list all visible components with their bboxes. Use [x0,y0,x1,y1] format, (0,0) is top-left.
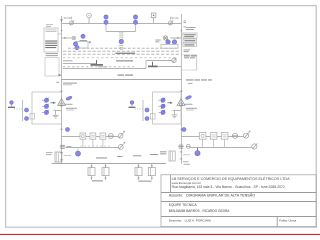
pole instruments blue right [145,108,149,121]
svg-text:Assunto: DIAGRAMA UNIFILAR D: Assunto: DIAGRAMA UNIFILAR DE ALTA TENSÃ… [169,193,255,198]
transformer text left [65,104,78,111]
aux meter right [186,145,190,149]
lamp blue below row2 right [195,148,200,156]
ground right [172,111,182,118]
flow arrow left [51,102,56,104]
svg-text:EQUIPE TECNICA: EQUIPE TECNICA [169,203,198,207]
instrument box marks right [201,134,227,137]
PT pair blue x106 [104,15,108,24]
svg-text:Folha: Única: Folha: Única [279,217,296,222]
CT symbol left bay [62,36,76,40]
PT pair blue x136 [133,15,137,24]
label drops 1-2 [92,180,103,181]
cubicle-to-riser arrow left [59,74,62,77]
pilot lamp blue right [182,128,186,132]
CT row2 left [60,145,65,148]
breaker left row1 [118,131,125,138]
instrument row line left [62,136,119,138]
wire: left bay vertical riser [61,16,63,164]
dimension arrow left bay [64,17,72,20]
meter instrument left [87,13,92,23]
cubicle dashed drop [120,32,123,50]
pilot lamp blue left [66,128,70,132]
dimension arrow right bay [171,17,179,20]
meter circle right [232,133,238,138]
wire: mini bus under PT pairs [106,31,136,33]
box stubs left [83,139,103,147]
note text rows [63,48,180,66]
lamp blue in cubicle drop [119,39,123,43]
row2 line right [190,147,251,149]
fuse switch on bus left [70,20,75,25]
svg-text:Rua Aragibania, 153 sala 3 - V: Rua Aragibania, 153 sala 3 - Vila Barros… [172,185,285,189]
transformer TR02 label [186,79,212,84]
breaker left row2 [118,142,125,149]
incoming feed arrow left [60,19,63,22]
breaker label left [98,66,107,67]
service pole right [142,100,144,121]
bus label [118,75,134,76]
trafo aux box left [46,152,71,162]
LV labels above [96,154,158,159]
main 15kv bus [62,79,182,81]
arrester arrow blue right [185,95,192,100]
feeder drop 4 [148,164,155,180]
breaker tie right [146,58,181,69]
label drops 3-4 [139,181,152,182]
breaker 52 bar left [91,60,104,65]
box stubs right [203,139,225,147]
TP cluster left [73,34,91,50]
instrument box marks left [82,135,105,138]
breaker right row2 [252,143,258,149]
fuse stack blue right [159,98,166,115]
feeder drop 3 [135,164,142,180]
meter circle left [108,134,114,139]
breaker tie left [63,64,146,69]
service pole left [22,100,24,121]
svg-text:BENJAMIM BARROS - RICARDO GEDR: BENJAMIM BARROS - RICARDO GEDRA [169,209,230,213]
feeder drop 2 [102,164,109,180]
svg-text:Desenho: LUIZ A. PORCIANI: Desenho: LUIZ A. PORCIANI [169,218,211,222]
red margin line [0,233,320,235]
surge arrester right [129,101,144,109]
transformer delta right [177,99,185,106]
relay cabinet text right bay [184,34,196,45]
wire: right bay vertical riser [180,14,182,164]
wire: PT pair taps [105,24,107,32]
flow arrow right [168,102,173,104]
trafo aux box right [160,151,190,161]
instrument boxes right [199,133,228,140]
bus notes left [57,82,78,85]
breaker 52 bar right [148,62,158,67]
breaker right row1 [244,131,251,138]
notes panel right bay [182,55,197,70]
TP cluster right [155,40,178,49]
meter instrument right [151,13,156,23]
instrument boxes left [80,133,106,139]
relay cabinet right bay [184,21,196,30]
surge arrester left [8,101,23,109]
feeder drop 1 [88,164,95,180]
entrance cubicle right [151,92,182,124]
node dots [61,30,183,131]
lamp blue below row2 left [76,147,81,156]
CT row2 right [178,145,183,148]
lower metering cubicle left [45,58,59,76]
wire: HV incoming bus [62,23,182,25]
ground left [53,110,62,118]
metering cabinet left [44,28,62,52]
row2 line left [66,147,119,149]
transformer delta left [58,99,66,106]
CT symbol right bay [163,36,181,40]
relay cabinet label right bay [184,50,191,53]
pole instruments blue left [25,108,29,121]
title block text [169,176,297,223]
small text right of lamp [183,161,190,164]
relay cabinet boxes right bay [181,33,197,47]
fuse stack blue left [42,98,49,115]
sub label medicao [63,53,135,62]
cable text row2 left [80,145,112,147]
arrester arrow blue left [66,96,73,101]
fuse switch on bus right [169,20,174,25]
CT label left [67,145,72,148]
transformer text right [185,104,198,111]
LV bus [52,163,167,165]
entrance cubicle left [30,92,62,124]
instrument row line right [181,136,243,138]
metering cabinet text left [45,24,58,56]
